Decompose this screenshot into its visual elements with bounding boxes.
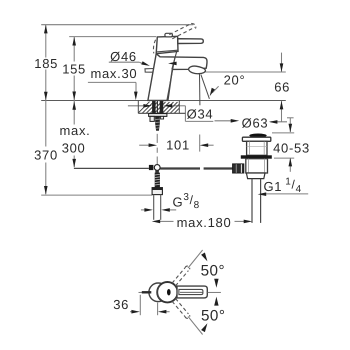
svg-text:50°: 50°	[201, 263, 225, 280]
svg-text:155: 155	[62, 62, 86, 77]
svg-text:max.30: max.30	[90, 66, 137, 81]
svg-text:Ø34: Ø34	[187, 107, 214, 122]
svg-text:max.: max.	[60, 123, 91, 138]
svg-text:50°: 50°	[201, 308, 225, 325]
svg-text:36: 36	[113, 297, 129, 312]
svg-text:max.180: max.180	[177, 215, 232, 230]
svg-text:101: 101	[166, 137, 190, 152]
svg-text:185: 185	[34, 56, 58, 71]
svg-text:66: 66	[274, 80, 290, 95]
svg-text:370: 370	[34, 148, 58, 163]
svg-text:40-53: 40-53	[273, 140, 310, 155]
svg-text:300: 300	[62, 141, 86, 156]
svg-text:20°: 20°	[224, 73, 246, 88]
svg-text:Ø63: Ø63	[242, 115, 269, 130]
svg-text:Ø46: Ø46	[110, 49, 137, 64]
